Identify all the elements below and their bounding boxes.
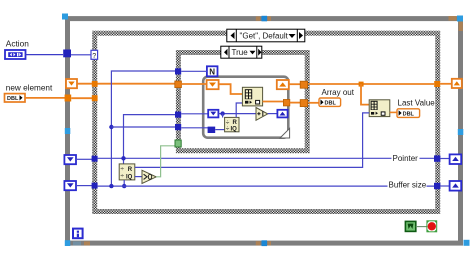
wire A branch to True case <box>111 126 176 128</box>
border artifact marks <box>84 16 463 245</box>
wire N tunnel to N <box>181 70 207 72</box>
loop condition terminal (stop) <box>427 221 437 232</box>
wire buffer size long run <box>98 185 434 187</box>
wire junction down to index array <box>361 84 369 105</box>
wire RIQ2 bottom stub to buffer size wire <box>123 180 125 186</box>
index array node <box>369 100 390 117</box>
wire buffer array left run <box>77 83 176 85</box>
junction pointer right on case border <box>434 155 440 161</box>
wire SR to +1 with branch to RIQ1 <box>218 113 256 115</box>
label Buffer size (on wire) <box>388 180 427 190</box>
selection handle right-middle <box>458 129 464 135</box>
shift register orange right (while) <box>452 79 462 88</box>
tunnel new element on case border <box>92 95 98 101</box>
while loop W1 border <box>68 19 461 244</box>
replace array subset node <box>242 87 262 106</box>
tunnel blue on for loop border <box>208 127 216 133</box>
tunnel buffer on case right border <box>434 81 440 87</box>
shift register blue left 1 (while, pointer) <box>64 155 76 164</box>
tunnel on True case left border (buffer size) <box>175 124 181 130</box>
selection handle bottom-middle <box>262 240 268 246</box>
wire boolean to True case selector <box>156 146 175 177</box>
case selector terminal ? <box>91 50 98 60</box>
indicator Last Value (DBL) <box>397 109 420 118</box>
svg-text:Array out: Array out <box>322 88 355 97</box>
shift register blue right 1 (while) <box>450 154 462 164</box>
wire buffer size to SR right <box>440 185 450 187</box>
junction dot pointer/branch B <box>121 156 125 160</box>
wire index array to Last Value <box>390 111 397 113</box>
wire orange inside for loop to replace node <box>219 84 243 94</box>
tunnel new element on while border <box>65 95 72 102</box>
wire new element to loop tunnel <box>25 97 65 99</box>
svg-text:DBL: DBL <box>403 112 415 118</box>
wire to Array out indicator <box>308 102 319 104</box>
tunnel orange on True right border (buffer) <box>300 81 307 88</box>
quotient remainder node RIQ2 <box>119 164 135 181</box>
wire for tunnel to RIQ1 <box>215 129 224 131</box>
tunnel orange on for loop right border <box>283 100 289 106</box>
wire pointer left <box>76 158 92 160</box>
wire for SR orange right to True tunnel <box>289 83 300 85</box>
wire Action tunnel to selector <box>71 54 92 56</box>
svg-text:Last Value: Last Value <box>398 99 436 108</box>
case structure C1 border <box>95 33 438 211</box>
svg-text:R: R <box>233 120 238 126</box>
vertical wire A (buffer size trunk) <box>111 71 176 186</box>
svg-text:DBL: DBL <box>7 96 19 102</box>
label Pointer (on wire) <box>392 153 420 163</box>
shift register orange left (while) <box>66 79 77 88</box>
shift register blue left (for loop) <box>208 110 218 118</box>
selection handle top-right <box>457 16 463 22</box>
tunnel orange on True right border (array out) <box>300 100 307 107</box>
wire RIQ2 IQ output to comparator <box>135 176 142 178</box>
junction on buffer wire <box>359 82 364 87</box>
selection handle bottom-left <box>65 240 71 246</box>
selector terminal on True case (green) <box>175 140 181 147</box>
wire for tunnel to True tunnel <box>290 102 300 104</box>
tunnel buffer on True case left border <box>175 81 182 88</box>
shift register blue right (for loop) <box>277 110 287 118</box>
wire case tunnel to SR orange right <box>440 83 452 85</box>
junction pointer on case border <box>92 156 98 162</box>
comparator greater than zero <box>142 170 156 183</box>
case selector label "Get", Default <box>227 29 305 42</box>
selection handle top-middle <box>262 16 268 21</box>
svg-text:Action: Action <box>6 38 29 48</box>
svg-text:True: True <box>232 48 249 57</box>
wire tunnel to for SR blue <box>181 113 208 115</box>
svg-text:?: ? <box>92 53 96 60</box>
shift register blue left 2 (while, buffer size) <box>64 181 76 190</box>
svg-text:Pointer: Pointer <box>393 154 419 163</box>
tunnel pointer on True case left border <box>175 112 181 118</box>
indicator Array out (DBL) <box>319 98 341 107</box>
iteration terminal i <box>73 229 83 239</box>
svg-text:Buffer size: Buffer size <box>389 181 427 190</box>
for loop F1 border <box>203 77 288 138</box>
control terminal new element (DBL) <box>5 94 26 102</box>
wire +1 to SR blue right <box>268 113 278 115</box>
tunnel Action on while border <box>63 50 71 58</box>
svg-text:new element: new element <box>6 84 53 93</box>
junction dot A at buffer-size branch <box>109 125 113 129</box>
wire Action to loop tunnel <box>26 54 64 56</box>
junction buffer size right on case border <box>434 183 440 189</box>
wire new element tunnel to case tunnel <box>71 97 92 99</box>
selection handle bottom-right <box>464 240 470 246</box>
selection handle left-middle <box>65 128 71 134</box>
svg-text:IQ: IQ <box>126 174 133 180</box>
wire RIQ2 R output long run to index array <box>135 113 369 167</box>
wire pointer to SR right <box>440 158 450 160</box>
svg-text:÷: ÷ <box>226 125 230 132</box>
wire pointer long run <box>98 157 434 159</box>
case structure C2 (inner True) border <box>178 53 307 151</box>
wire tunnel to for loop tunnel <box>181 127 208 129</box>
wire tunnel to for-loop SR <box>181 83 206 85</box>
svg-text:÷: ÷ <box>120 166 124 173</box>
wire replace out to for tunnel <box>263 101 284 103</box>
junction buffer size on case border <box>92 183 98 189</box>
junction dot A on buffer size <box>109 184 113 188</box>
shift register orange right (for loop) <box>277 80 289 89</box>
tunnel N on True case left border <box>175 68 181 74</box>
wire buffer right run <box>308 83 434 85</box>
wire buffer size left <box>76 185 92 187</box>
shift register orange left (for loop) <box>207 80 219 89</box>
svg-text:IQ: IQ <box>231 127 238 133</box>
selection handle top-left <box>62 14 68 20</box>
svg-text:"Get", Default: "Get", Default <box>240 32 289 41</box>
increment node +1 <box>256 108 268 121</box>
svg-text:R: R <box>128 167 133 173</box>
quotient remainder node RIQ1 <box>225 117 239 132</box>
svg-text:÷: ÷ <box>120 173 124 180</box>
shift register blue right 2 (while) <box>450 181 462 191</box>
svg-text:DBL: DBL <box>325 101 337 107</box>
junction dot RIQ2 stub <box>122 184 126 188</box>
junction dot for RIQ1 <box>220 111 224 115</box>
wire boolean to loop condition <box>416 226 427 228</box>
wire RIQ1 to replace node index input <box>236 103 242 117</box>
wire dot down to RIQ1 <box>222 114 224 118</box>
vertical wire B (pointer branch) <box>124 115 177 164</box>
control terminal Action (enum) <box>5 50 26 59</box>
for loop F1 resize corner <box>280 128 290 138</box>
boolean terminal (stop source) <box>405 221 415 231</box>
loop count terminal N <box>207 66 218 76</box>
svg-text:N: N <box>209 68 215 77</box>
case selector label True <box>221 46 262 58</box>
junction buffer wire on case border <box>92 81 98 87</box>
